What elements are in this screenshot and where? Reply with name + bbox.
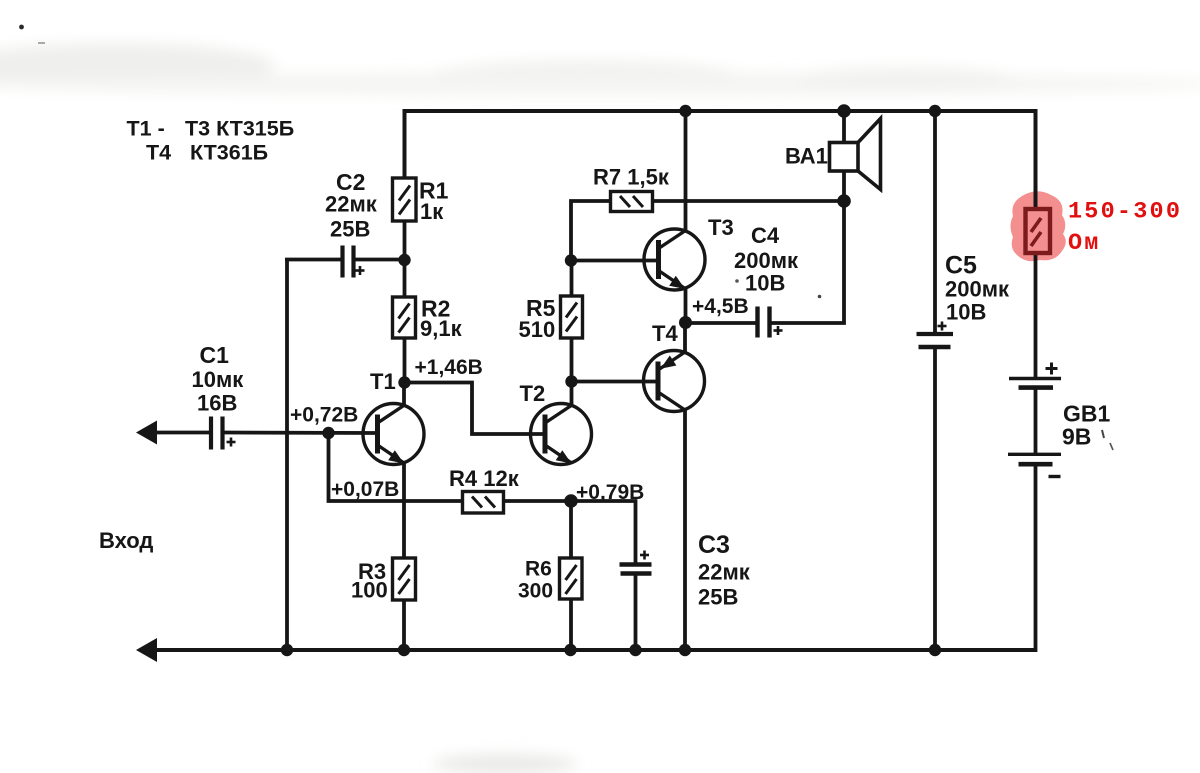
highlight blob around extra resistor: [1011, 191, 1066, 261]
node +0,79V: [564, 494, 578, 508]
resistor R1: [393, 178, 417, 221]
svg-text:300: 300: [518, 580, 553, 603]
wire speaker to node: [842, 170, 846, 203]
svg-text:9,1к: 9,1к: [420, 316, 463, 341]
wire input to C1: [150, 431, 210, 435]
svg-text:R6: R6: [525, 558, 552, 581]
capacitor C2: [343, 246, 365, 278]
capacitor C1: [211, 417, 236, 450]
wire R2 bottom to node +1,46V: [403, 338, 407, 384]
wire C2 right lead: [355, 258, 406, 262]
wire R5 top to T3 base node: [570, 259, 574, 296]
svg-text:Т2: Т2: [520, 381, 546, 406]
svg-text:510: 510: [519, 317, 556, 342]
wire R6 bottom lead: [569, 599, 573, 650]
svg-text:+0,79В: +0,79В: [576, 481, 644, 504]
wire node to R2 top: [403, 258, 407, 297]
svg-text:25В: 25В: [698, 585, 738, 610]
wire top supply rail: [405, 111, 1036, 209]
svg-text:Т3 КТ315Б: Т3 КТ315Б: [185, 117, 294, 141]
svg-text:9В: 9В: [1062, 424, 1091, 450]
svg-text:1к: 1к: [420, 199, 444, 224]
resistor R7: [611, 192, 653, 212]
battery GB1 cell 1: [1009, 363, 1061, 388]
node T2 collector / T4 base: [565, 375, 577, 387]
wire node +4,5V to C4 left plate: [684, 321, 756, 325]
svg-text:+1,46В: +1,46В: [415, 356, 483, 379]
wire top rail to speaker: [842, 109, 846, 143]
transistor T2: [531, 404, 592, 465]
wire coupling node to T2 base: [405, 383, 547, 435]
wire C5 top lead: [933, 109, 937, 333]
capacitor C4: [758, 307, 783, 338]
svg-text:Ом: Ом: [1068, 230, 1101, 257]
wire T3 emitter to node +4,5V: [684, 289, 688, 325]
battery GB1 cell 2: [1008, 454, 1061, 476]
node +4,5V: [679, 316, 692, 329]
svg-text:+0,72В: +0,72В: [290, 404, 358, 427]
svg-text:R7 1,5к: R7 1,5к: [593, 165, 670, 190]
wire R6 top lead: [569, 499, 573, 558]
wire C1 to T1 base: [225, 431, 379, 435]
svg-text:22мк: 22мк: [698, 560, 751, 585]
node bottom rail x287: [281, 644, 293, 656]
svg-text:22мк: 22мк: [325, 192, 378, 217]
svg-text:ВА1: ВА1: [785, 144, 828, 169]
node +1,46V: [398, 376, 410, 388]
wire R1 bottom to node: [403, 221, 407, 262]
svg-text:R4 12к: R4 12к: [449, 466, 520, 491]
capacitor C3: [620, 551, 652, 574]
wire bias node down and right to R4: [329, 432, 464, 501]
svg-text:25В: 25В: [330, 217, 370, 242]
resistor R2: [393, 297, 416, 338]
node T3 base: [565, 254, 577, 266]
wire red resistor to battery: [1034, 253, 1038, 378]
capacitor C5: [917, 322, 954, 348]
wire T3 collector to top rail: [684, 109, 688, 231]
node bottom rail C5: [929, 644, 941, 656]
resistor R4: [463, 492, 504, 514]
wire T3 base node to T3: [570, 259, 660, 263]
wire battery middle: [1034, 388, 1038, 454]
wire T4 collector to bottom rail: [683, 411, 687, 651]
svg-text:+0,07В: +0,07В: [331, 478, 399, 501]
resistor 150-300 Ohm (highlighted): [1026, 209, 1051, 253]
svg-text:С5: С5: [945, 252, 977, 280]
node C5 top: [929, 105, 941, 117]
svg-text:Т1 -: Т1 -: [127, 117, 165, 141]
wire T1 collector stub: [402, 381, 406, 406]
wire C5 bottom lead: [933, 348, 937, 650]
node +0,72V: [322, 427, 334, 439]
svg-text:Т4: Т4: [652, 321, 678, 346]
svg-text:Т4: Т4: [146, 141, 171, 165]
speaker BA1: [830, 119, 881, 190]
wire node to R5 bottom: [570, 338, 574, 383]
transistor T4: [644, 351, 705, 412]
wire C4 right plate to BA1 node riser: [772, 199, 845, 323]
node BA1 bottom: [837, 194, 851, 208]
svg-text:200мк: 200мк: [734, 248, 799, 273]
node BA1 top: [837, 104, 851, 118]
svg-text:Т1: Т1: [370, 369, 396, 394]
wire R7 right lead to speaker node: [652, 199, 846, 203]
svg-text:10мк: 10мк: [192, 367, 245, 392]
wire C2 left lead: [285, 258, 341, 262]
transistor T1: [363, 404, 424, 465]
resistor R3: [393, 558, 416, 600]
resistor R5: [561, 296, 583, 338]
node bottom rail R3: [398, 644, 410, 656]
resistor R6: [560, 558, 583, 599]
input arrow upper: [136, 421, 157, 445]
svg-text:С1: С1: [200, 342, 230, 368]
wire R3 to bottom rail: [402, 600, 406, 650]
svg-text:100: 100: [351, 578, 388, 603]
node bottom rail R6: [564, 644, 576, 656]
node C2/R1/R2 junction: [398, 254, 410, 266]
svg-text:10В: 10В: [745, 271, 785, 296]
wire R7 left lead: [571, 201, 611, 262]
wire T1 emitter down to R3: [402, 462, 406, 558]
node bottom rail C3: [629, 644, 641, 656]
svg-text:150-300: 150-300: [1068, 199, 1182, 226]
svg-text:10В: 10В: [946, 300, 986, 325]
svg-text:+4,5В: +4,5В: [692, 295, 749, 318]
svg-text:КТ361Б: КТ361Б: [190, 141, 268, 165]
node T3 collector top rail: [679, 105, 691, 117]
wire T2 collector stub: [570, 380, 574, 406]
wire left column C2 to bottom rail: [285, 258, 289, 650]
svg-text:200мк: 200мк: [945, 277, 1010, 302]
input arrow lower: [136, 638, 157, 662]
transistor T3: [644, 229, 705, 290]
svg-text:Вход: Вход: [99, 528, 153, 553]
wire R4 to node +0,79V: [504, 499, 573, 503]
node bottom rail T4: [679, 644, 691, 656]
wire node +0,79V to C3: [569, 501, 636, 563]
wire bottom common rail: [148, 648, 1036, 652]
svg-text:С4: С4: [751, 223, 780, 248]
svg-text:Т3: Т3: [708, 215, 734, 240]
wire battery to bottom rail: [1034, 466, 1038, 652]
wire T4 emitter to node +4,5V: [683, 321, 687, 352]
wire T4 base: [570, 380, 659, 384]
svg-text:16В: 16В: [197, 391, 237, 416]
svg-text:С3: С3: [698, 531, 730, 559]
wire C3 bottom lead: [634, 574, 638, 650]
